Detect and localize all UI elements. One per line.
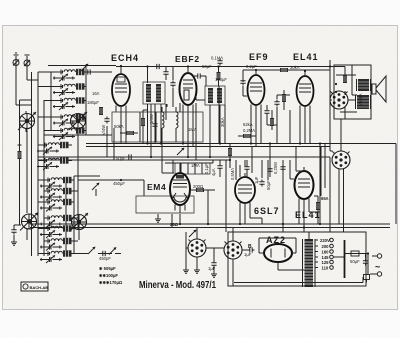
capacitor C24 (196, 73, 203, 78)
speaker plug socket X3 (188, 239, 206, 257)
wire: gang link (27, 229, 79, 240)
wire: long riser x226 (225, 160, 227, 232)
ground G1 (11, 240, 17, 245)
coil L1 with trimmer C1 (53, 69, 85, 82)
capacitor C20 (267, 167, 272, 174)
wire: HT bus A (86, 143, 396, 145)
switch arrow S4 (189, 230, 196, 237)
wire: rail 8 (65, 180, 67, 254)
wire: x290 (289, 110, 291, 144)
svg-text:EF9: EF9 (249, 52, 269, 62)
svg-text:6SL7: 6SL7 (254, 206, 280, 216)
switch box SW1 (364, 275, 370, 280)
rectifier socket X2 (224, 241, 242, 259)
svg-text:1µF: 1µF (208, 266, 216, 271)
capacitor C26 (259, 180, 264, 187)
tube EL41 top (297, 71, 314, 114)
svg-text:BACH-AB: BACH-AB (30, 285, 49, 290)
wire: rail 1 (31, 72, 33, 256)
tuning capacitor gang 1a (18, 112, 36, 130)
wire: box feed line (44, 134, 112, 136)
output transformer T1 (357, 79, 371, 91)
wire: HT bus B (86, 146, 330, 148)
wire: C24 link (193, 76, 206, 86)
svg-text:V988A: V988A (358, 93, 363, 106)
power supply box (228, 232, 366, 286)
capacitor C29 (363, 259, 368, 266)
coil L17 (176, 112, 178, 128)
tube EF9 (248, 70, 265, 113)
wire: top bus (48, 66, 345, 67)
svg-text:1µF: 1µF (254, 176, 259, 184)
wire: rail 2 (37, 72, 39, 256)
svg-text:EL41: EL41 (293, 52, 319, 62)
wire: x173 top drop (172, 67, 174, 81)
coil L13 with trimmer C13 (40, 225, 72, 238)
wire: C37 stems (267, 105, 277, 125)
wire: left feeder (20, 100, 32, 225)
tube AZ2 (259, 244, 296, 262)
svg-text:V/4W: V/4W (101, 125, 106, 135)
wire: EL41b pins down (299, 204, 320, 233)
wire: AZ2 plate leads (259, 238, 305, 270)
wire: rail 3 (43, 100, 45, 256)
power transformer PT1 (303, 239, 316, 287)
wire: padder arrow line (115, 253, 121, 255)
svg-text:125: 125 (322, 260, 330, 265)
wire: EBF2 extra pins (180, 103, 196, 112)
svg-text:180µF: 180µF (87, 100, 99, 105)
wire: speaker box wiring (336, 65, 357, 135)
resistor R4 (280, 68, 288, 72)
svg-text:0,2µF: 0,2µF (246, 64, 257, 69)
wire: rail 7 (85, 66, 87, 135)
wire: S5 stem (95, 189, 97, 196)
capacitor C33 (163, 70, 168, 77)
logo box (21, 282, 48, 291)
svg-text:1µF: 1µF (244, 252, 252, 257)
fuse F1 (351, 251, 359, 256)
ground G5 (155, 217, 161, 222)
ground G4 (211, 272, 217, 277)
coil L3 with trimmer C3 (53, 97, 85, 110)
wire: right edge drop (395, 144, 397, 225)
wire: speaker to socket (330, 99, 356, 101)
mains tap 160 (315, 250, 333, 255)
mains terminal 2 (370, 272, 382, 276)
wire: C35 tail (172, 88, 174, 107)
earth terminal (24, 55, 38, 80)
wire: C33 drop (165, 67, 167, 81)
wire: osc feed line (74, 176, 144, 196)
coil L6 with trimmer C6 (37, 142, 69, 155)
svg-text:✱ 505µF: ✱ 505µF (99, 266, 116, 271)
wire: EM4 down (158, 214, 180, 228)
tuning capacitor gang 1b (69, 112, 87, 130)
switch arrow S1 (81, 64, 88, 71)
capacitor C23 (217, 59, 222, 66)
resistor R17 (270, 118, 274, 126)
wire: diode load (225, 105, 236, 180)
wire: 6SL7 couplings (240, 147, 268, 181)
svg-text:16Λ: 16Λ (92, 91, 100, 96)
coil L5 with trimmer C5 (53, 127, 85, 140)
wire: C18 link (14, 225, 21, 240)
svg-text:0,1µF: 0,1µF (204, 163, 209, 174)
wire: EL41b right drops (321, 144, 325, 197)
svg-text:1MΛ: 1MΛ (188, 127, 197, 132)
svg-text:EM4: EM4 (147, 182, 166, 192)
wire: EM4 feeds (162, 142, 196, 173)
wire: C31 stem (277, 95, 290, 120)
wire: AVC bus A (38, 156, 330, 158)
resistor R15 (18, 151, 22, 159)
wire: SW1 down (366, 280, 368, 283)
svg-text:50µF: 50µF (116, 156, 126, 161)
terminal strip (175, 163, 210, 174)
oscillator box (112, 112, 203, 142)
wire: grid line to ECH4 (85, 71, 113, 73)
resistor R6 (316, 202, 320, 210)
svg-text:110: 110 (322, 266, 329, 271)
output socket (330, 91, 348, 109)
wire: AVC bus B (38, 159, 230, 161)
mains terminal 1 (372, 254, 382, 258)
mains tap 200 (315, 244, 333, 249)
resistor R3 (228, 148, 232, 156)
coil L14 with trimmer C14 (40, 238, 72, 251)
wire: top link EF9-EL41 (243, 70, 330, 82)
svg-text:50µF: 50µF (202, 64, 212, 69)
capacitor C16 (86, 69, 93, 74)
wire: ground bus B (30, 227, 390, 229)
resistor R11 (343, 75, 347, 83)
wire: x155 drop (154, 104, 156, 144)
junction dots on buses (120, 65, 122, 67)
ground G2 (194, 268, 200, 273)
wire: x320 drop (319, 144, 321, 225)
speaker box (334, 65, 371, 119)
wire: rail 5 (73, 176, 75, 254)
wire: padder row (74, 253, 112, 255)
svg-text:0,25W: 0,25W (273, 162, 278, 174)
resistor R5 (196, 188, 204, 192)
svg-text:✱✱✱170µΩ: ✱✱✱170µΩ (99, 280, 123, 285)
svg-text:200Ω: 200Ω (193, 184, 203, 189)
wire: X2 stems (233, 228, 248, 286)
svg-text:28Ω: 28Ω (170, 222, 179, 227)
coil L2 with trimmer C2 (53, 83, 85, 96)
wire: R6 link (314, 196, 318, 224)
svg-text:0,2MΛ: 0,2MΛ (243, 128, 255, 133)
coil L15 with trimmer C15 (40, 250, 72, 263)
wire: riser x219 (218, 67, 220, 87)
capacitor C27 (211, 261, 216, 268)
wire: x330 riser (329, 60, 331, 232)
wire: rail 6 (77, 176, 79, 230)
tube EL41 bottom (295, 167, 314, 206)
wire: EM4 top link (165, 160, 213, 173)
wire: ground bus A (30, 223, 390, 225)
coil L4 with trimmer C4 (53, 114, 85, 127)
capacitor C34 (152, 122, 157, 129)
wire: lower bank right links (72, 180, 79, 254)
mains tap 125 (315, 260, 333, 265)
wire: R14 stems (143, 110, 148, 144)
svg-text:1MΛ: 1MΛ (191, 163, 200, 168)
svg-text:50kΛ: 50kΛ (114, 124, 124, 129)
resistor R2 (217, 72, 221, 80)
wire: fuse to cap (359, 254, 368, 276)
coil L7 with trimmer C7 (37, 157, 69, 170)
switch arrow S2 (88, 247, 95, 254)
terminal dot 2 (335, 91, 337, 93)
wire: antenna drop (25, 111, 27, 132)
wire: x167 drop (166, 104, 168, 107)
svg-text:0,5MΛ: 0,5MΛ (230, 168, 235, 180)
svg-text:0,1MΛ: 0,1MΛ (211, 56, 223, 61)
wire: EL41b feeds (290, 147, 304, 180)
junction dot J1 (367, 252, 369, 254)
svg-text:200: 200 (322, 244, 330, 249)
wire: osc section (107, 106, 126, 160)
wire: R1 link (120, 132, 138, 134)
svg-text:450pF: 450pF (99, 256, 111, 261)
wire: box inner bottom (234, 277, 363, 283)
wire: x270 drop (269, 144, 271, 178)
svg-text:~: ~ (375, 262, 380, 272)
wire: plus mark (18, 143, 22, 147)
wire: X3 stems (186, 228, 224, 269)
tube 6SL7 (235, 173, 255, 210)
wire: EBF2 pin drops (183, 105, 193, 158)
wire: row stubs lower (38, 180, 45, 254)
capacitor C35 (170, 81, 175, 88)
capacitor C36 (217, 164, 222, 171)
wire: 6SL7 pins down (240, 208, 262, 225)
EM4 socket box (136, 196, 194, 213)
coil L11 with trimmer C11 (40, 199, 72, 212)
svg-text:30kΛ: 30kΛ (290, 65, 300, 70)
coil L10 with trimmer C10 (40, 188, 72, 201)
svg-text:1/4W: 1/4W (149, 114, 154, 124)
ground G3 (183, 268, 189, 273)
wire: row stubs upper (38, 72, 58, 131)
wire: diode wires (196, 96, 205, 100)
svg-text:30kΛ: 30kΛ (220, 117, 225, 127)
mains tap 145 (315, 255, 333, 260)
tube EBF2 (180, 67, 197, 115)
tube EM4 (170, 173, 190, 213)
svg-text:4µΛ: 4µΛ (211, 168, 216, 176)
coil L9 with trimmer C9 (40, 177, 72, 190)
svg-text:450µF: 450µF (113, 181, 125, 186)
wire: varcap 1b stem (77, 129, 79, 214)
wire: C27 stem (213, 248, 215, 272)
switch arrow S5 (92, 183, 99, 190)
wire: R17 stems (271, 110, 273, 130)
wire: mid bank links (38, 145, 72, 161)
wire: long riser x219 (218, 86, 220, 144)
resistor R1 (126, 131, 134, 135)
wire: IFT2 drops (210, 105, 220, 157)
socket X1 (332, 151, 350, 169)
capacitor C17 padder (101, 251, 108, 256)
coil L16 (162, 112, 164, 128)
svg-text:65Λ: 65Λ (321, 196, 329, 201)
wire: X1 stems (330, 135, 344, 232)
capacitor C30 (240, 79, 245, 86)
wire: rail 4 (50, 72, 52, 131)
svg-text:50µF: 50µF (266, 180, 271, 190)
capacitor C21 (280, 165, 285, 172)
svg-text:ECH4: ECH4 (111, 53, 139, 63)
resistor R13 (243, 134, 251, 138)
svg-text:62kΛ: 62kΛ (243, 122, 253, 127)
speaker cone (372, 76, 386, 102)
wire: osc box leads (162, 107, 196, 142)
svg-text:160: 160 (322, 250, 330, 255)
svg-text:✱✱100µF: ✱✱100µF (99, 273, 118, 278)
tuning capacitor gang 2a (20, 213, 38, 231)
svg-text:50µF: 50µF (350, 259, 360, 264)
coil L12 with trimmer C12 (40, 215, 72, 228)
resistor R14 (141, 118, 145, 126)
svg-text:EBF2: EBF2 (175, 54, 200, 64)
junction dot (120, 179, 122, 181)
output transformer T2 (356, 95, 371, 109)
wire: C38 stems (246, 160, 248, 177)
antenna (13, 53, 32, 105)
wire: IFT1 leads (151, 104, 166, 157)
svg-text:100µF: 100µF (215, 77, 227, 82)
svg-text:220V: 220V (320, 238, 330, 243)
wire: x277 (276, 120, 278, 144)
wire: EL41t pin drops (300, 106, 310, 144)
terminal dots (335, 83, 337, 85)
wire: PT top lead (308, 232, 310, 287)
wire: R13 stem (238, 135, 256, 137)
capacitor C25 (127, 154, 134, 159)
wire: C36 stems (219, 160, 221, 177)
mains tap 220V (315, 238, 333, 243)
voltage selector bar (344, 240, 346, 278)
wire: varcap 1a stem (26, 129, 28, 214)
switch arrow S3 (109, 247, 116, 254)
wire: ECH4 anode riser (147, 67, 149, 144)
capacitor C31 (274, 100, 279, 107)
wire: C30 stem (243, 86, 247, 96)
resistor R16 (99, 107, 103, 115)
switch arrow S6 (177, 148, 184, 155)
capacitor C38 (244, 165, 249, 172)
svg-text:AZ2: AZ2 (266, 235, 286, 245)
resistor R12 (282, 94, 286, 102)
wire: R12 stem (283, 90, 285, 110)
wire: row 2 link (85, 87, 87, 131)
tube ECH4 (112, 67, 130, 115)
wire: selector arm (334, 254, 352, 258)
capacitor C32 (155, 64, 162, 69)
svg-text:Minerva - Mod. 497/1: Minerva - Mod. 497/1 (139, 279, 216, 291)
wire: R5 link (190, 190, 215, 224)
capacitor C28 (248, 247, 255, 252)
capacitor C19 (104, 117, 109, 124)
wire: EF9 pin drops (251, 105, 261, 147)
mains tap 110 (315, 266, 333, 271)
capacitor C18 (11, 228, 16, 235)
capacitor C37 (264, 109, 269, 116)
tuning capacitor gang 2b (70, 213, 88, 231)
wire: x283 drop (282, 160, 284, 232)
